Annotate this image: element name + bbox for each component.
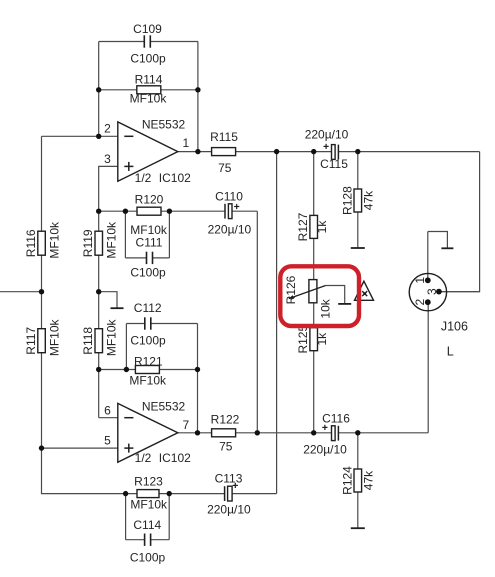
label MF10k xyxy=(129,374,167,388)
svg-text:2: 2 xyxy=(413,298,427,305)
label C113 xyxy=(215,472,243,486)
wire xyxy=(427,232,429,281)
capacitor C112 xyxy=(145,317,151,329)
label 10k xyxy=(319,298,333,318)
svg-text:C109: C109 xyxy=(133,22,162,36)
junction xyxy=(96,209,101,214)
label MF10k xyxy=(47,221,61,259)
label C111 xyxy=(136,235,163,249)
svg-text:1: 1 xyxy=(182,136,189,150)
label 1k xyxy=(315,332,329,346)
wire xyxy=(99,166,118,211)
svg-text:10k: 10k xyxy=(319,298,333,318)
wire xyxy=(99,41,198,43)
svg-text:R114: R114 xyxy=(135,73,163,87)
svg-text:R127: R127 xyxy=(296,212,310,241)
resistor R120 xyxy=(137,207,161,215)
svg-text:J106: J106 xyxy=(441,319,468,333)
pin 2 xyxy=(425,299,431,305)
svg-text:NE5532: NE5532 xyxy=(142,399,186,413)
wire xyxy=(439,291,480,293)
svg-text:3: 3 xyxy=(425,288,439,295)
wire xyxy=(357,433,359,469)
pin 3 xyxy=(436,289,442,295)
pin 6 label xyxy=(104,403,111,417)
ground xyxy=(99,292,124,309)
junction xyxy=(96,367,101,372)
junction xyxy=(96,134,101,139)
svg-text:C116: C116 xyxy=(322,412,350,426)
junction xyxy=(123,209,128,214)
junction xyxy=(195,149,200,154)
wire xyxy=(42,135,118,137)
svg-text:R128: R128 xyxy=(340,186,354,215)
junction xyxy=(255,430,260,435)
wire xyxy=(126,324,197,370)
svg-text:1/2: 1/2 xyxy=(135,451,152,465)
label 75 xyxy=(219,439,233,453)
svg-text:MF10k: MF10k xyxy=(129,374,167,388)
wire xyxy=(178,432,428,434)
svg-text:MF10k: MF10k xyxy=(130,498,168,512)
label R122 xyxy=(211,413,240,427)
ground xyxy=(326,286,352,304)
svg-text:C115: C115 xyxy=(320,157,348,171)
trimmer R126 xyxy=(289,280,326,303)
capacitor C111 xyxy=(147,252,153,264)
svg-text:MF10k: MF10k xyxy=(47,318,61,356)
label R115 xyxy=(210,130,238,144)
label MF10k xyxy=(130,498,168,512)
svg-text:IC102: IC102 xyxy=(159,451,191,465)
resistor R121 xyxy=(135,366,159,374)
wire xyxy=(427,302,429,433)
wire xyxy=(197,370,199,433)
resistor R118 xyxy=(95,329,103,353)
junction xyxy=(123,491,128,496)
svg-text:47k: 47k xyxy=(362,190,376,210)
label 220u/10 xyxy=(207,502,251,516)
capacitor C109 xyxy=(144,35,150,47)
svg-text:R118: R118 xyxy=(81,327,95,355)
svg-text:R116: R116 xyxy=(24,229,38,257)
label C112 xyxy=(134,301,162,315)
label 1/2 IC102 xyxy=(135,451,191,465)
svg-text:47k: 47k xyxy=(362,470,376,490)
highlight box around R126 xyxy=(280,266,359,326)
label 75 xyxy=(218,161,232,175)
junction xyxy=(311,149,316,154)
junction xyxy=(355,430,360,435)
label 47k xyxy=(362,190,376,210)
svg-text:R117: R117 xyxy=(24,327,38,355)
label 220u/10 xyxy=(303,443,347,457)
resistor R123 xyxy=(137,490,159,498)
label R128 xyxy=(340,186,354,215)
label C115 xyxy=(320,157,348,171)
label C109 xyxy=(133,22,162,36)
label C100p xyxy=(130,52,166,66)
resistor R119 xyxy=(95,231,103,255)
label R121 xyxy=(134,354,163,368)
op-amp U1 (1/2 IC102) xyxy=(118,122,178,181)
label MF10k xyxy=(104,221,118,259)
svg-text:R119: R119 xyxy=(81,229,95,257)
svg-text:R121: R121 xyxy=(134,354,163,368)
pin 2 label xyxy=(413,298,427,305)
label L xyxy=(447,345,454,359)
capacitor C114 xyxy=(145,534,151,546)
svg-text:C112: C112 xyxy=(134,301,162,315)
label MF10k xyxy=(104,318,118,356)
resistor R127 xyxy=(310,215,318,238)
svg-text:MF10k: MF10k xyxy=(130,92,168,106)
label MF10k xyxy=(130,92,168,106)
label R117 xyxy=(24,327,38,355)
ground xyxy=(351,492,365,528)
pin 2 label xyxy=(104,121,111,135)
capacitor C113 xyxy=(225,483,238,501)
label C100p xyxy=(130,334,166,348)
svg-text:C110: C110 xyxy=(215,189,243,203)
resistor R128 xyxy=(354,189,362,212)
label NE5532 xyxy=(142,399,186,413)
resistor R122 xyxy=(212,429,236,437)
capacitor C115 xyxy=(324,144,339,160)
svg-text:MF10k: MF10k xyxy=(104,221,118,259)
svg-text:C111: C111 xyxy=(136,235,163,249)
svg-text:MF10k: MF10k xyxy=(104,318,118,356)
svg-text:R125: R125 xyxy=(296,325,310,354)
wire xyxy=(357,152,359,189)
resistor R124 xyxy=(354,469,362,492)
resistor R114 xyxy=(137,86,161,94)
junction xyxy=(39,289,44,294)
svg-text:2: 2 xyxy=(104,121,111,135)
resistor R115 xyxy=(212,148,236,156)
svg-text:1/2: 1/2 xyxy=(135,171,152,185)
label R116 xyxy=(24,229,38,257)
label R119 xyxy=(81,229,95,257)
wire xyxy=(99,89,198,91)
junction xyxy=(96,87,101,92)
svg-text:NE5532: NE5532 xyxy=(142,117,186,131)
svg-text:6: 6 xyxy=(104,403,111,417)
resistor R116 xyxy=(38,231,46,255)
resistor R125 xyxy=(310,328,318,351)
label C114 xyxy=(133,518,161,532)
junction xyxy=(167,491,172,496)
wire xyxy=(0,291,42,293)
svg-text:R126: R126 xyxy=(284,275,298,304)
label R127 xyxy=(296,212,310,241)
svg-text:1k: 1k xyxy=(315,332,329,346)
label MF10k xyxy=(47,318,61,356)
wire xyxy=(439,152,480,292)
pin 7 label xyxy=(182,418,189,432)
pin 3 label xyxy=(104,152,111,166)
junction xyxy=(124,367,129,372)
svg-text:IC102: IC102 xyxy=(159,171,191,185)
svg-text:MF10k: MF10k xyxy=(47,221,61,259)
svg-text:R115: R115 xyxy=(210,130,238,144)
label 1/2 IC102 xyxy=(135,171,191,185)
svg-text:MF10k: MF10k xyxy=(130,223,168,237)
wire xyxy=(99,210,258,212)
label NE5532 xyxy=(142,117,186,131)
label C116 xyxy=(322,412,350,426)
svg-text:1: 1 xyxy=(413,277,427,284)
svg-text:3: 3 xyxy=(104,152,111,166)
wire xyxy=(99,369,198,371)
label 1k xyxy=(315,220,329,234)
svg-text:C100p: C100p xyxy=(130,265,166,279)
label C100p xyxy=(130,550,166,564)
ground xyxy=(428,232,454,249)
junction xyxy=(195,367,200,372)
wire xyxy=(126,494,170,540)
label R126 xyxy=(284,275,298,304)
wire xyxy=(98,42,100,137)
svg-text:7: 7 xyxy=(182,418,189,432)
label R118 xyxy=(81,327,95,355)
junction xyxy=(195,87,200,92)
svg-text:C100p: C100p xyxy=(130,550,166,564)
capacitor C110 xyxy=(225,204,239,219)
op-amp U2 (1/2 IC102) xyxy=(118,403,178,462)
adjustment marker xyxy=(355,281,374,300)
wire xyxy=(197,42,199,152)
svg-text:220µ/10: 220µ/10 xyxy=(208,223,252,237)
junction xyxy=(96,289,101,294)
ground xyxy=(351,212,365,248)
capacitor C116 xyxy=(322,425,338,441)
pin 1 xyxy=(425,277,431,283)
wire xyxy=(99,211,118,418)
label MF10k xyxy=(130,223,168,237)
svg-text:75: 75 xyxy=(218,161,232,175)
label J106 xyxy=(441,319,468,333)
wire xyxy=(178,151,480,153)
connector J106 xyxy=(409,273,446,310)
junction xyxy=(167,209,172,214)
svg-text:C113: C113 xyxy=(215,472,243,486)
svg-text:220µ/10: 220µ/10 xyxy=(303,443,347,457)
wire xyxy=(256,211,258,433)
junction xyxy=(195,430,200,435)
junction xyxy=(274,149,279,154)
wire xyxy=(42,447,118,449)
svg-text:220µ/10: 220µ/10 xyxy=(207,502,251,516)
svg-text:220µ/10: 220µ/10 xyxy=(305,127,349,141)
label C100p xyxy=(130,265,166,279)
label 47k xyxy=(362,470,376,490)
svg-text:75: 75 xyxy=(219,439,233,453)
pin 1 label xyxy=(413,277,427,284)
svg-text:1k: 1k xyxy=(315,220,329,234)
label R125 xyxy=(296,325,310,354)
wire xyxy=(276,152,278,494)
pin 3 label xyxy=(425,288,439,295)
label R114 xyxy=(135,73,163,87)
label R120 xyxy=(135,192,164,206)
junction xyxy=(311,430,316,435)
wire xyxy=(125,211,169,258)
label 220u/10 xyxy=(208,223,252,237)
svg-text:R124: R124 xyxy=(340,466,354,495)
wire xyxy=(313,152,315,433)
svg-text:C100p: C100p xyxy=(130,334,166,348)
svg-text:5: 5 xyxy=(104,433,111,447)
svg-text:L: L xyxy=(447,345,454,359)
pin 5 label xyxy=(104,433,111,447)
svg-text:R120: R120 xyxy=(135,192,164,206)
label 220u/10 xyxy=(305,127,349,141)
svg-text:R122: R122 xyxy=(211,413,240,427)
label R123 xyxy=(134,474,163,488)
svg-text:C100p: C100p xyxy=(130,52,166,66)
label C110 xyxy=(215,189,243,203)
wire xyxy=(42,136,138,493)
svg-text:C114: C114 xyxy=(133,518,161,532)
junction xyxy=(355,149,360,154)
resistor R117 xyxy=(38,329,46,353)
wire xyxy=(159,493,277,495)
junction xyxy=(39,445,44,450)
pin 1 label xyxy=(182,136,189,150)
label R124 xyxy=(340,466,354,495)
svg-text:R123: R123 xyxy=(134,474,163,488)
